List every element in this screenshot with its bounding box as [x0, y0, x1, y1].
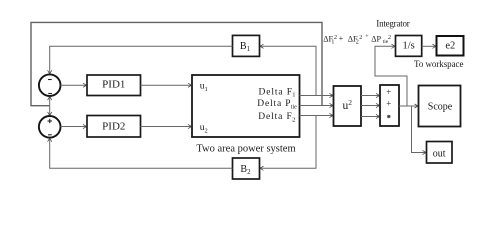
- wire sum to Scope: [399, 105, 418, 107]
- svg-text:To workspace: To workspace: [414, 59, 464, 69]
- svg-text:Delta F: Delta F: [258, 112, 292, 122]
- wire tap to out block: [412, 106, 426, 153]
- wire squarer to sum row3: [361, 116, 379, 118]
- svg-text:2: 2: [292, 116, 295, 123]
- svg-text:tie: tie: [291, 104, 297, 110]
- wire junction to S2 top: [49, 106, 51, 116]
- svg-text:Integrator: Integrator: [376, 19, 410, 29]
- label cost function dF1^2+dF2^2+dPtie^2: [323, 34, 391, 45]
- svg-text:ΔP: ΔP: [371, 35, 381, 44]
- svg-text:Scope: Scope: [428, 101, 453, 112]
- svg-text:out: out: [433, 148, 446, 159]
- wire Delta F2 output to squarer: [300, 115, 333, 117]
- wire Delta F1 tap to B1 input: [260, 46, 316, 95]
- wire PID2 to u2 input: [141, 126, 192, 128]
- svg-text:+: +: [339, 34, 344, 43]
- summing junction S2: [39, 116, 61, 138]
- wire Delta F1 output to squarer: [300, 95, 333, 97]
- wire S2 to PID2: [61, 126, 87, 128]
- svg-text:Delta F: Delta F: [259, 87, 293, 97]
- wire squarer to sum row1: [361, 95, 379, 97]
- svg-text:e2: e2: [445, 40, 455, 51]
- block u2 squarer: [334, 86, 362, 126]
- svg-text:2: 2: [388, 35, 391, 41]
- svg-text:+: +: [365, 34, 369, 40]
- wire B1 to S1 top: [50, 46, 233, 74]
- wire junction to S1 bottom: [49, 97, 51, 106]
- block PID2: [87, 116, 141, 138]
- block B1: [233, 35, 260, 56]
- svg-text:2: 2: [334, 35, 337, 41]
- svg-text:PID1: PID1: [102, 78, 125, 90]
- svg-text:1: 1: [292, 92, 295, 99]
- block Scope: [419, 86, 461, 127]
- block sum: [380, 85, 399, 126]
- block PID1: [87, 75, 141, 96]
- svg-text:+: +: [386, 87, 391, 97]
- svg-text:PID2: PID2: [102, 121, 125, 133]
- svg-text:1/s: 1/s: [402, 40, 414, 51]
- wire PID1 to u1 input: [141, 84, 192, 86]
- summing junction S1: [39, 74, 61, 96]
- wire Delta Ptie tap over the top to junction: [31, 22, 322, 105]
- svg-text:Two area power system: Two area power system: [196, 144, 295, 155]
- wire Delta Ptie output to squarer: [300, 105, 333, 107]
- block e2 to-workspace: [437, 36, 464, 56]
- wire tap to integrator: [375, 46, 407, 106]
- wire B2 to S2 bottom: [50, 138, 233, 168]
- svg-text:Delta P: Delta P: [257, 99, 290, 109]
- svg-text:2: 2: [359, 35, 362, 41]
- block integrator 1/s: [396, 36, 422, 57]
- block Two area power system: [192, 75, 300, 137]
- block out: [427, 142, 453, 164]
- block B2: [233, 158, 260, 179]
- wire Delta F2 tap to B2 input: [260, 116, 316, 169]
- wire S1 to PID1: [61, 84, 87, 86]
- svg-text:+: +: [386, 99, 391, 109]
- wire squarer to sum row2: [361, 105, 379, 107]
- wire integrator to e2: [422, 45, 436, 47]
